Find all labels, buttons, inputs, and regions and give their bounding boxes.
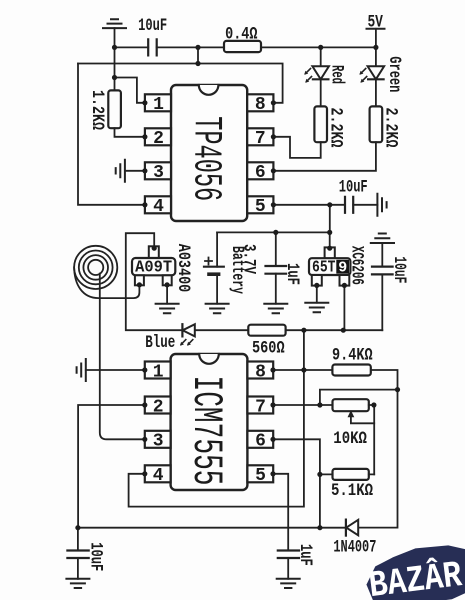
potentiometer RV1 10K body [333, 399, 369, 411]
junction U2 pin3 [142, 437, 147, 442]
svg-text:1uF: 1uF [282, 263, 302, 285]
transistor Q1 A09T body [132, 258, 175, 275]
wire BAT rail y=63.5 to pin8 [78, 64, 283, 103]
U1 pin 4 box [145, 196, 171, 213]
svg-text:3: 3 [153, 163, 164, 183]
transistor Q1 A09T top pin [149, 246, 159, 258]
svg-text:5: 5 [255, 197, 266, 217]
svg-text:A09T: A09T [135, 258, 172, 277]
junction 5V rail / input ground [112, 45, 117, 50]
U2 pin 5 box [247, 465, 273, 482]
LED D1 arrows [304, 69, 311, 83]
capacitor C2 10uF plates (pin5) [345, 197, 353, 213]
ground U3 [305, 303, 328, 313]
D4 cathode bar [345, 520, 347, 536]
wire battery rail y=232.4 [217, 231, 330, 233]
junction U2 pin4 [142, 471, 147, 476]
capacitor C1 10uF plates [148, 39, 157, 55]
LED D2 arrows [359, 69, 366, 83]
svg-text:10uF: 10uF [339, 178, 368, 198]
U1 pin 1 box [145, 94, 171, 111]
wire U3 left pin to ground [316, 286, 318, 303]
LED D3 blue cathode bar [181, 324, 183, 336]
capacitor C5 10uF bottom-left [77, 528, 79, 579]
junction U1 pin8 [271, 100, 276, 105]
RV1 wiper arrow [351, 414, 374, 424]
resistor R6 5.1K body [333, 469, 369, 480]
svg-text:1N4007: 1N4007 [333, 538, 376, 558]
junction 5V rail / red LED [318, 45, 323, 50]
svg-text:10uF: 10uF [389, 256, 409, 283]
wire left outline to pin4 [78, 64, 145, 205]
wire 1.2K bottom to pin2 [115, 128, 145, 137]
junction Q1 drain pin [152, 246, 157, 251]
ground (rotated right, pin5 cap) [377, 194, 386, 216]
svg-text:9.4KΩ: 9.4KΩ [332, 346, 373, 366]
junction U2 pin8 [270, 367, 275, 372]
wire 5V input rail y=47.4 [115, 46, 376, 48]
junction U3 out pin [342, 283, 347, 288]
LED D2 cathode bar [368, 78, 384, 80]
svg-text:8: 8 [255, 95, 266, 115]
U1 pin 5 box [247, 196, 273, 213]
svg-text:0.4Ω: 0.4Ω [225, 24, 258, 44]
svg-text:3: 3 [153, 432, 164, 452]
svg-text:2: 2 [153, 129, 164, 149]
U2 pin 4 box [145, 465, 171, 482]
junction V33 rail / pin4-8 link [301, 328, 306, 333]
junction pot right terminal [371, 402, 376, 407]
svg-text:2: 2 [153, 397, 164, 417]
wire pin3 ground wire [125, 170, 145, 172]
svg-text:9: 9 [338, 259, 347, 276]
LED D3 blue wires [195, 329, 382, 331]
svg-text:ICM7555: ICM7555 [182, 376, 230, 486]
U3 bottom pin left [312, 275, 322, 286]
U2 notch [199, 354, 219, 364]
resistor R4 560 body [248, 325, 285, 336]
svg-text:Red: Red [326, 65, 346, 84]
battery BT1 3.7V [216, 232, 218, 303]
svg-text:2.2KΩ: 2.2KΩ [326, 108, 346, 148]
resistor 0.4ohm [224, 41, 261, 52]
svg-text:Battery: Battery [227, 246, 247, 294]
U1 pin 7 box [247, 128, 273, 145]
U3 body 65T9 [309, 258, 350, 275]
svg-text:4: 4 [153, 466, 164, 486]
watermark BAZAR logo [363, 541, 465, 600]
junction U3 top pin [327, 246, 332, 251]
svg-text:560Ω: 560Ω [252, 339, 285, 359]
junction R6 left / pin6 bus [317, 472, 322, 477]
regulator U3 65T9 top stem [329, 232, 331, 247]
junction bottom rail / C5 [75, 525, 80, 530]
wire bottom rail y=527.7 [78, 527, 346, 529]
wire U2 pin7 to pot [273, 404, 332, 406]
U1 pin 8 box [247, 94, 273, 111]
wire U2 pin5 down to 1uF [273, 474, 288, 551]
junction U2 pin5 [270, 471, 275, 476]
svg-text:7: 7 [255, 129, 266, 149]
wire ground stem down through 1.2K top [114, 28, 116, 90]
junction U1 pin3 [142, 168, 147, 173]
wire coil tail to Q1 left pin [74, 267, 139, 298]
U2 pin 3 box [145, 431, 171, 448]
junction U1 pin2 [142, 134, 147, 139]
U2 pin 8 box [247, 362, 273, 379]
op-amp U1 TP4056 body [171, 85, 247, 221]
wire 5V underline [367, 28, 385, 30]
U2 pin 7 box [247, 397, 273, 414]
junction U2 pin2 [142, 402, 147, 407]
svg-text:5.1KΩ: 5.1KΩ [331, 481, 373, 501]
junction 5V rail / green LED [373, 45, 378, 50]
junction V33 rail / U3 out [341, 328, 346, 333]
svg-text:6: 6 [255, 432, 266, 452]
svg-text:1: 1 [153, 362, 164, 382]
svg-text:TP4056: TP4056 [182, 116, 227, 201]
junction battery rail / C3 [273, 230, 278, 235]
wire coil inner to 7555 pin3 [100, 274, 145, 440]
U1 pin 3 box [145, 162, 171, 179]
junction 5V rail / link upper [195, 45, 200, 50]
wire Q1 right pin to ground [166, 286, 168, 304]
svg-text:BAZÂR: BAZÂR [367, 554, 465, 600]
resistor R3 2.2K (green) [370, 106, 383, 142]
transistor Q1 A09T wire top feed [126, 233, 183, 330]
svg-text:5: 5 [255, 466, 266, 486]
U2 pin 2 box [145, 397, 171, 414]
inductor L1 coil [74, 246, 117, 289]
resistor R1 1.2K body [108, 90, 121, 128]
wire U2 pin4 loop to V33 vertical [129, 330, 304, 506]
R6 leads [320, 473, 374, 475]
RV1 right lead [369, 405, 374, 474]
LED D2 green column wires [375, 47, 377, 106]
svg-text:65T: 65T [312, 258, 336, 277]
junction pin8 wire / V33 link [301, 367, 306, 372]
U2 pin 6 box [247, 431, 273, 448]
op-amp U2 ICM7555 body [171, 354, 248, 490]
junction Q1 left pin [137, 282, 142, 287]
svg-text:2.2KΩ: 2.2KΩ [381, 108, 401, 148]
LED D3 arrows [180, 340, 193, 346]
junction BAT wire / link lower [195, 61, 200, 66]
ground (inverted) for C4 10uF out [371, 234, 394, 244]
LED D1 red triangle [312, 66, 329, 79]
capacitor C6 1uF bottom [278, 551, 299, 559]
svg-text:A03400: A03400 [173, 244, 193, 293]
ground 1uF battery [264, 304, 287, 314]
LED D3 blue triangle [183, 324, 195, 336]
LED D1 red column wires [320, 47, 322, 106]
junction U1 pin1 [142, 100, 147, 105]
LED D2 green triangle [368, 66, 385, 79]
wire U2 pin8 to 9.4K and down right side [273, 370, 397, 528]
svg-text:10uF: 10uF [86, 542, 106, 571]
U1 pin 6 box [247, 162, 273, 179]
ground (inverted, top-left 5V input ground) [103, 19, 126, 28]
svg-text:10KΩ: 10KΩ [333, 429, 367, 449]
svg-text:4: 4 [153, 197, 164, 217]
capacitor C3 1uF (battery) [275, 232, 277, 303]
wire pin5 row [273, 204, 377, 206]
U1 pin 2 box [145, 128, 171, 145]
junction Q1 right pin [165, 282, 170, 287]
junction U2 pin1 [142, 367, 147, 372]
capacitor C4 10uF out [381, 243, 383, 330]
svg-text:XC6206: XC6206 [346, 246, 366, 285]
junction U2 pin7 [270, 402, 275, 407]
junction bottom rail / pin6 bus [317, 525, 322, 530]
U3 top pin [325, 247, 335, 258]
junction U1 pin5 [271, 202, 276, 207]
Q1 bottom pin left [135, 275, 144, 285]
junction pot left terminal [317, 402, 322, 407]
U3 bottom pin right [340, 275, 350, 286]
resistor R5 9.4K body [332, 365, 370, 376]
junction U3 gnd pin [314, 283, 319, 288]
junction U1 pin7 [271, 134, 276, 139]
svg-text:10uF: 10uF [138, 16, 167, 36]
junction pin5 wire / regulator feed [327, 202, 332, 207]
junction 1.2K top / pin1 branch [112, 75, 117, 80]
svg-text:Green: Green [384, 56, 404, 92]
Q1 bottom pin right [163, 275, 172, 285]
wire branch to pin1 [115, 78, 145, 103]
wire link between rails x=198 [197, 47, 199, 63]
svg-text:Blue: Blue [145, 333, 175, 353]
U3 mark black square with 9 [336, 260, 349, 274]
U2 pin 1 box [145, 362, 171, 379]
svg-text:1uF: 1uF [295, 544, 315, 566]
resistor R2 2.2K (red) [314, 106, 327, 142]
junction U2 pin6 [270, 437, 275, 442]
ground battery [206, 304, 229, 314]
ground (rotated, TP4056 pin3) [116, 160, 125, 182]
U1 notch [199, 85, 219, 95]
wire U2 pin2 to left rail down [78, 405, 145, 528]
svg-text:8: 8 [255, 362, 266, 382]
wire U2 pin6 down to rail [273, 439, 320, 527]
junction battery rail / U3 in [327, 230, 332, 235]
junction U1 pin4 [142, 202, 147, 207]
wire pin6 to green resistor [273, 142, 376, 171]
svg-text:7: 7 [255, 397, 266, 417]
svg-text:1.2KΩ: 1.2KΩ [87, 90, 107, 130]
wire pin5 down to battery rail [329, 205, 331, 233]
ground Q1 [156, 304, 179, 314]
junction right bus / pot link [395, 387, 400, 392]
wire pin7 to red resistor [273, 137, 320, 158]
junction U1 pin6 [271, 168, 276, 173]
LED D1 cathode bar [313, 78, 329, 80]
diode D4 1N4007 triangle [346, 520, 358, 536]
wire mid link y=389.6 to pot left [320, 390, 398, 405]
wire 5V stub [375, 29, 377, 48]
ground C5 [66, 579, 89, 588]
ground (rotated, U2 pin1) [77, 359, 86, 381]
svg-text:6: 6 [255, 163, 266, 183]
wire U2 pin1 ground wire [86, 369, 145, 371]
wire U3 right pin down to 560 rail [343, 286, 345, 331]
svg-text:1: 1 [153, 95, 164, 115]
ground C6 [277, 579, 300, 588]
